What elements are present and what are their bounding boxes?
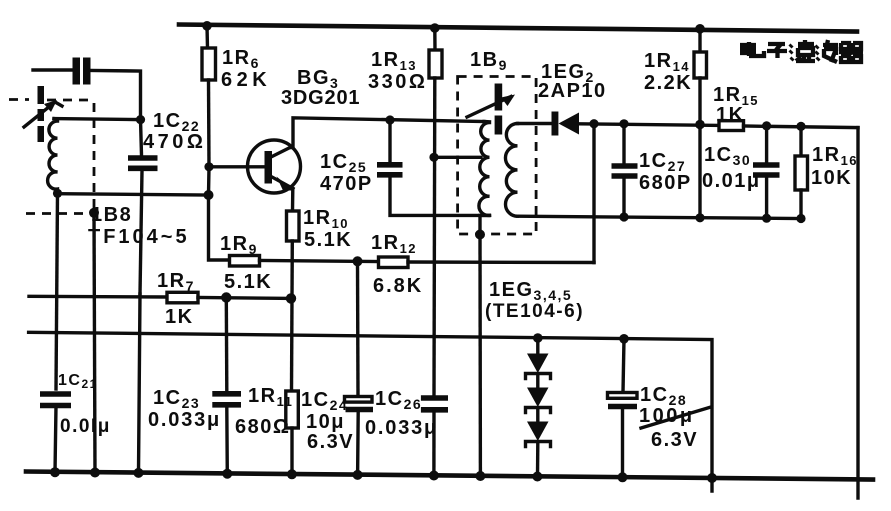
diode D3 (1EG3) xyxy=(526,338,551,387)
svg-text:5.1K: 5.1K xyxy=(224,271,272,293)
svg-text:680Ω: 680Ω xyxy=(235,416,290,438)
capacitor C21 (1C21 0.01u) xyxy=(40,372,111,437)
node dot R7/C23 xyxy=(221,292,231,302)
svg-text:1C30: 1C30 xyxy=(704,144,751,168)
svg-text:1C24: 1C24 xyxy=(301,389,348,413)
node dot detector output / C27 column xyxy=(619,119,628,128)
node dot at base column y195 xyxy=(204,190,214,200)
node dot top rail / R13 xyxy=(430,23,440,33)
diode D4 (1EG4) xyxy=(526,388,551,422)
svg-text:0.01μ: 0.01μ xyxy=(702,170,761,192)
capacitor C27 (1C27 680P) xyxy=(612,124,692,217)
wire: x94 column down to ground xyxy=(94,213,95,473)
svg-text:1C23: 1C23 xyxy=(153,387,200,411)
node dot R9/R12 to C24 column xyxy=(353,256,363,266)
node dot R13 column / primary tap xyxy=(429,153,438,162)
svg-text:2AP10: 2AP10 xyxy=(538,80,607,102)
bottom ground rail xyxy=(26,472,873,480)
wire: x480 column down to ground xyxy=(478,235,482,478)
inductor antenna coil L1 (4 bumps, baseline x57.5) xyxy=(48,119,58,194)
svg-text:1R12: 1R12 xyxy=(371,232,417,256)
svg-text:470Ω: 470Ω xyxy=(143,131,206,153)
wire: secondary bottom / filter bottom bus xyxy=(518,216,802,218)
capacitor C25 (1C25 470P) xyxy=(320,120,489,215)
resistor R11 (1R11 680) xyxy=(235,385,298,475)
svg-text:1R11: 1R11 xyxy=(248,385,293,409)
capacitor C23 (1C23 0.033u) xyxy=(148,298,241,475)
svg-text:6.3V: 6.3V xyxy=(307,431,354,453)
svg-text:1C27: 1C27 xyxy=(639,150,686,174)
node dot R16 bottom xyxy=(796,214,805,223)
node dot detector line / R14 column xyxy=(695,120,705,130)
svg-text:1EG3,4,5: 1EG3,4,5 xyxy=(489,279,572,303)
svg-text:1R16: 1R16 xyxy=(812,144,858,168)
node dot detector output / R12 column xyxy=(589,119,598,128)
svg-text:0.0Iμ: 0.0Iμ xyxy=(60,416,111,437)
svg-text:1B9: 1B9 xyxy=(470,49,508,73)
svg-text:10K: 10K xyxy=(811,167,852,189)
svg-text:0.033μ: 0.033μ xyxy=(365,417,438,439)
svg-text:6.3V: 6.3V xyxy=(651,429,698,451)
svg-text:330Ω: 330Ω xyxy=(368,71,427,93)
svg-text:1R13: 1R13 xyxy=(371,49,417,73)
node dot C28 column / AGC bus xyxy=(619,334,629,344)
svg-text:(TE104-6): (TE104-6) xyxy=(485,301,584,322)
svg-text:3DG201: 3DG201 xyxy=(281,87,360,109)
svg-text:1C25: 1C25 xyxy=(320,151,367,175)
node dot detector line / C30 xyxy=(762,121,771,130)
resistor R16 (1R16 10K) xyxy=(795,126,858,218)
wire: vertical column x140 from 1C22 top dot down to ground rail xyxy=(139,120,143,473)
resistor R7 (1R7 1K) xyxy=(29,270,291,328)
node dot antenna coil bottom xyxy=(53,189,62,198)
resistor R13 (1R13 330) xyxy=(368,28,442,477)
capacitor C22 (1C22 470) plates xyxy=(128,110,206,168)
svg-text:6.8K: 6.8K xyxy=(373,275,423,297)
wire: primary bottom to shield-bottom node xyxy=(480,215,490,234)
svg-text:1R6: 1R6 xyxy=(222,47,260,71)
label: electronic filter (Chinese) xyxy=(740,40,863,62)
capacitor C28 (1C28 100u 6.3V electrolytic) xyxy=(608,339,712,476)
node dot top rail / R14 xyxy=(695,24,705,34)
wire: AGC bus xyxy=(29,332,712,491)
svg-text:1R9: 1R9 xyxy=(220,233,258,257)
node dot shield bottom xyxy=(475,230,485,240)
node dot C25 top xyxy=(385,115,394,124)
svg-text:1R10: 1R10 xyxy=(303,207,349,231)
transformer B9 (1B9) shield dashed box xyxy=(458,77,536,235)
resistor R6 (1R6 62K) xyxy=(202,26,271,167)
inductor B9 secondary winding xyxy=(505,124,517,217)
svg-text:2.2K: 2.2K xyxy=(644,72,692,94)
wire: output right column x858 down xyxy=(856,128,859,498)
svg-text:680P: 680P xyxy=(639,172,692,194)
capacitor C24 (1C24 10u 6.3V electrolytic) xyxy=(301,261,373,475)
node dot diode string top xyxy=(533,333,543,343)
svg-text:1C26: 1C26 xyxy=(375,388,422,412)
wire: base column from y166 to y195 and corner to R9 xyxy=(209,167,230,260)
wire: x57 column coil bottom down to ground xyxy=(56,193,58,389)
svg-text:10μ: 10μ xyxy=(306,411,345,433)
svg-text:62K: 62K xyxy=(221,69,271,91)
antenna coil core (dashed adjustable core bar) xyxy=(38,86,45,142)
svg-text:1B8: 1B8 xyxy=(91,204,132,226)
svg-text:470P: 470P xyxy=(320,173,373,195)
resistor R10 (1R10 5.1K) emitter resistor xyxy=(287,189,353,392)
svg-text:1K: 1K xyxy=(716,104,745,126)
svg-text:5.1K: 5.1K xyxy=(304,229,352,251)
node dot R7 right end on emitter column xyxy=(286,293,296,303)
node dot C30 bottom xyxy=(762,214,771,223)
capacitor C30 (1C30 0.01u) xyxy=(702,126,780,218)
resistor R12 (1R12 6.8K) xyxy=(371,232,594,297)
wire: coupling cap to corner and down to 1C22 column xyxy=(91,71,141,120)
node dot detector line / R16 xyxy=(796,122,805,131)
label: 1EG3,4,5 diode group xyxy=(485,279,584,322)
wire: tap into transformer primary xyxy=(434,156,481,159)
diode D2 (1EG2 2AP10) detector xyxy=(518,61,720,136)
resistor R9 (1R9 5.1K) xyxy=(220,233,379,293)
capacitor antenna coupling (vertical plates) xyxy=(73,58,91,85)
transistor Q1 BG3 3DG201 xyxy=(210,67,360,193)
node dot base junction xyxy=(204,162,213,171)
resistor R14 (1R14 2.2K) xyxy=(644,29,707,218)
capacitor C26 (1C26 0.033u) xyxy=(365,388,448,439)
svg-text:1R7: 1R7 xyxy=(157,270,195,294)
svg-text:1C21: 1C21 xyxy=(58,372,98,391)
dashed link from core to x94 column xyxy=(9,100,94,209)
dashed leader + 1B8 transformer label xyxy=(26,204,190,248)
svg-text:1K: 1K xyxy=(165,306,194,328)
transformer core bar + arrow xyxy=(467,84,515,135)
svg-text:1R14: 1R14 xyxy=(644,50,690,74)
resistor R15 (1R15 1K) xyxy=(713,84,858,131)
node dot top rail / R6 xyxy=(202,21,212,31)
svg-text:TF104~5: TF104~5 xyxy=(88,226,190,248)
node dot coil-top / C22 column xyxy=(136,115,145,124)
wire: antenna coil top to C22 column xyxy=(54,119,141,120)
inductor B9 primary winding xyxy=(479,122,490,216)
node dot R14 column bottom xyxy=(695,213,704,222)
diode D5 (1EG5) xyxy=(526,422,551,478)
wire: R12 right end up to detector line xyxy=(592,124,595,263)
arrow through antenna core xyxy=(24,100,62,127)
wire: collector up and to transformer primary top xyxy=(291,118,484,148)
wire: antenna coupling left lead xyxy=(33,68,72,71)
ground rail junction dots xyxy=(50,467,717,483)
top supply rail xyxy=(179,25,857,32)
svg-text:0.033μ: 0.033μ xyxy=(148,409,221,431)
wire: coil bottom to base column xyxy=(58,194,209,195)
node dot C27 bottom xyxy=(619,212,628,221)
